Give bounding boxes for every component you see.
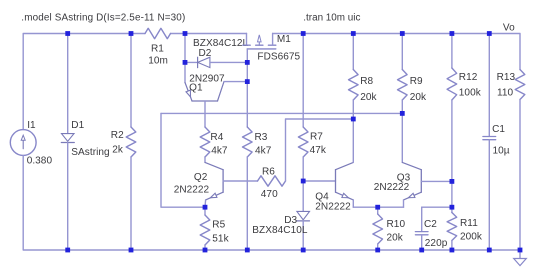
wire R6 right to wire B [286,119,354,181]
svg-text:M1: M1 [277,34,291,45]
svg-text:R9: R9 [410,76,423,87]
wire top rail right segment [273,34,520,70]
svg-text:220p: 220p [425,238,448,249]
junction dots emitter row [203,205,455,210]
junction dots top rail [65,31,491,36]
svg-text:20k: 20k [387,233,404,244]
svg-text:R12: R12 [459,72,478,83]
wire A vertical and to Q2 emitter [161,113,205,207]
svg-text:D1: D1 [71,120,84,131]
transistor Q4 2N2222 [303,162,353,212]
node Vo [503,23,515,34]
svg-text:110: 110 [497,87,514,98]
svg-text:BZX84C10L: BZX84C10L [252,225,308,236]
svg-text:R8: R8 [360,76,373,87]
resistor R9 [398,34,427,163]
resistor R2 [111,34,136,251]
svg-text:51k: 51k [212,233,229,244]
svg-text:Q2: Q2 [194,172,208,183]
resistor R5 [200,207,229,250]
svg-text:47k: 47k [310,145,327,156]
svg-text:4k7: 4k7 [255,145,272,156]
wire bottom rail [68,249,520,251]
svg-text:2N2222: 2N2222 [174,184,210,195]
svg-text:R4: R4 [210,132,223,143]
svg-text:C2: C2 [424,219,437,230]
resistor R10 [373,207,406,250]
svg-text:.tran 10m uic: .tran 10m uic [303,13,360,24]
junction dot Q1 collector [245,79,250,84]
wire M1 gate to R3 [246,49,248,127]
wire emitter row [353,206,403,208]
svg-text:D2: D2 [199,48,212,59]
svg-text:R3: R3 [255,132,268,143]
capacitor C2 [415,207,452,250]
svg-text:R13: R13 [497,72,516,83]
transistor Q3 2N2222 [374,162,452,207]
svg-text:SAstring: SAstring [71,147,109,158]
resistor R4 [200,127,228,162]
svg-text:I1: I1 [27,120,36,131]
directive .tran text [303,13,360,24]
svg-text:R5: R5 [212,220,225,231]
svg-text:R1: R1 [151,43,164,54]
wire rail to D2 node [184,34,186,63]
resistor R13 [497,70,525,251]
junction dots bottom rail [65,248,522,253]
ground [514,250,527,266]
svg-text:R11: R11 [460,218,478,229]
resistor R1 [145,28,171,66]
resistor R6 [258,166,286,200]
resistor R11 [447,181,483,250]
wire A horizontal [161,112,402,114]
wire rail to R7 [302,34,304,128]
svg-text:2N2222: 2N2222 [374,182,410,193]
svg-text:10m: 10m [148,55,168,66]
resistor R7 [298,127,326,181]
junction dot wire A end [400,111,405,116]
resistor R3 [243,127,272,250]
svg-text:.model SAstring D(Is=2.5e-11 N: .model SAstring D(Is=2.5e-11 N=30) [21,13,185,24]
svg-text:10µ: 10µ [493,145,510,156]
diode D1 [61,34,109,251]
svg-text:20k: 20k [410,92,427,103]
wire top rail left segment [23,34,246,130]
svg-text:0.380: 0.380 [27,156,53,167]
resistor R12 [447,34,482,182]
svg-text:2N2222: 2N2222 [315,202,351,213]
svg-text:R2: R2 [111,130,124,141]
svg-text:Q1: Q1 [189,83,203,94]
svg-text:470: 470 [261,189,278,200]
zener diode D3 [252,181,309,250]
svg-text:200k: 200k [460,231,483,242]
svg-text:C1: C1 [492,124,505,135]
junction dot wire B end [351,117,356,122]
resistor R8 [349,34,378,163]
svg-text:4k7: 4k7 [211,145,228,156]
zener diode D2 [185,38,249,68]
svg-text:FDS6675: FDS6675 [257,51,300,62]
svg-text:R7: R7 [310,132,323,143]
capacitor C1 [483,34,510,251]
wire I1 bottom [23,155,67,250]
junction dots D2 row [183,60,250,65]
current source I1 [10,120,52,167]
transistor Q1 2N2907 [185,62,247,127]
svg-text:100k: 100k [459,87,482,98]
svg-text:Vo: Vo [503,23,515,34]
mosfet M1 FDS6675 [243,34,301,63]
junction dots base row [301,179,455,184]
transistor Q2 2N2222 [174,162,258,207]
svg-text:R10: R10 [387,219,406,230]
svg-text:R6: R6 [262,166,275,177]
svg-text:2k: 2k [112,144,124,155]
directive .model text [21,13,185,24]
svg-text:20k: 20k [360,92,377,103]
